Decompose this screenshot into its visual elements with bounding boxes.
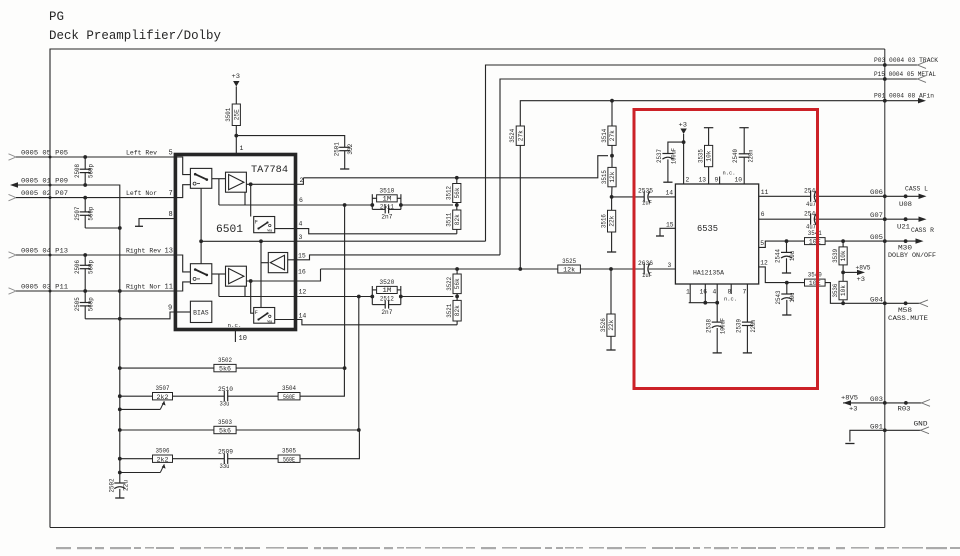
- wire pin7 stub: [746, 284, 748, 322]
- wire pins 1-16-4 common: [689, 302, 718, 304]
- svg-text:3521: 3521: [446, 304, 453, 318]
- svg-text:14: 14: [666, 190, 674, 197]
- svg-text:U21: U21: [897, 224, 910, 231]
- svg-text:12k: 12k: [609, 171, 616, 182]
- ground 2538: [713, 352, 722, 354]
- wire Right Rev: [16, 254, 175, 256]
- resistor 3521 82k: [456, 296, 458, 300]
- wire 3503 net: [120, 429, 214, 431]
- wire 2507 to bus: [85, 227, 120, 229]
- svg-text:4: 4: [713, 289, 717, 296]
- node pin12-R3522: [455, 295, 459, 299]
- svg-text:27k: 27k: [517, 130, 524, 141]
- svg-text:2n7: 2n7: [381, 214, 392, 221]
- node 2505-busP09: [118, 317, 122, 321]
- svg-text:2544: 2544: [775, 249, 782, 263]
- wire pin9 to bus: [120, 312, 176, 319]
- node G04-bus: [883, 301, 887, 305]
- svg-text:+3: +3: [857, 276, 866, 283]
- svg-text:BIAS: BIAS: [193, 310, 209, 317]
- svg-text:DOLBY ON/OFF: DOLBY ON/OFF: [888, 252, 936, 259]
- svg-text:2502: 2502: [108, 478, 115, 492]
- wire F-switch D to pin14: [275, 319, 296, 321]
- svg-text:n.c.: n.c.: [723, 170, 736, 177]
- node pin5-C2544: [785, 239, 789, 243]
- node G07-bus: [883, 217, 887, 221]
- svg-text:3535: 3535: [697, 149, 704, 163]
- svg-text:1M: 1M: [382, 195, 391, 202]
- capacitor 2508 560p: [84, 157, 86, 169]
- svg-text:3: 3: [668, 262, 672, 269]
- svg-text:3514: 3514: [601, 129, 608, 143]
- capacitor 2636 1uF: [643, 264, 645, 275]
- svg-text:12: 12: [299, 288, 307, 295]
- connector P15 0004 05 METAL: [918, 76, 927, 83]
- resistor 3515 12k: [611, 156, 613, 168]
- svg-text:56k: 56k: [454, 187, 461, 198]
- svg-text:332: 332: [347, 143, 354, 154]
- svg-text:2508: 2508: [74, 164, 81, 178]
- svg-text:7: 7: [743, 289, 747, 296]
- capacitor 2501 332: [339, 146, 350, 148]
- node pin6-R3512: [455, 203, 459, 207]
- svg-text:2538: 2538: [705, 319, 712, 333]
- node P07-C2507: [83, 196, 87, 200]
- capacitor 2507 560p: [84, 198, 86, 212]
- svg-text:10k: 10k: [840, 285, 847, 296]
- svg-text:2540: 2540: [732, 149, 739, 163]
- wire opamp B output to pin16: [246, 269, 320, 281]
- node 3501-out: [234, 134, 238, 138]
- svg-text:0005 05 P05: 0005 05 P05: [21, 149, 68, 156]
- node TRACK-bus: [883, 63, 887, 67]
- svg-text:3503: 3503: [218, 419, 232, 426]
- node 3525-3526: [609, 267, 613, 271]
- svg-text:0005 04 P13: 0005 04 P13: [21, 247, 68, 254]
- ground 2543: [782, 314, 791, 316]
- svg-text:Wa: Wa: [268, 320, 273, 324]
- svg-text:+8V5: +8V5: [841, 394, 858, 401]
- svg-text:3526: 3526: [600, 318, 607, 332]
- node bus-3506: [118, 457, 122, 461]
- ground pin15: [656, 235, 664, 237]
- svg-text:3506: 3506: [156, 448, 170, 455]
- node pin2-R3512: [455, 176, 459, 180]
- svg-text:13: 13: [699, 177, 707, 184]
- svg-text:82k: 82k: [454, 214, 461, 225]
- node R03: [904, 401, 908, 405]
- ground 2501: [340, 168, 349, 170]
- svg-text:2505: 2505: [74, 297, 81, 311]
- svg-text:3516: 3516: [600, 214, 607, 228]
- connector 0005 05 P05 Left Rev: [9, 154, 17, 160]
- connector P03 0004 03 TRACK: [918, 62, 927, 69]
- svg-text:27k: 27k: [609, 130, 616, 141]
- capacitor 2543 10u: [786, 283, 788, 294]
- wire +3 to pin2: [683, 142, 685, 184]
- svg-text:0005 01 P09: 0005 01 P09: [21, 177, 68, 184]
- svg-text:82k: 82k: [454, 305, 461, 316]
- svg-text:16: 16: [700, 289, 708, 296]
- capacitor 2541 4u7: [810, 214, 812, 225]
- svg-text:560p: 560p: [88, 206, 95, 220]
- resistor 3520 1M with capacitor 2512 2n7: [371, 286, 373, 305]
- node pin6-npR: [399, 203, 403, 207]
- svg-text:220n: 220n: [750, 319, 757, 332]
- node P11-border: [49, 290, 52, 293]
- wire pin9 internal: [175, 311, 190, 313]
- wire pin10 stub: [234, 330, 236, 343]
- wire G03 net: [843, 402, 922, 404]
- node bus-3507: [118, 394, 122, 398]
- svg-text:10: 10: [239, 335, 247, 343]
- node 3502-riser: [343, 366, 347, 370]
- node pin12-npR: [399, 295, 403, 299]
- svg-text:2535: 2535: [638, 188, 653, 195]
- node opA-Fbox: [249, 182, 253, 186]
- svg-text:1: 1: [240, 145, 244, 152]
- node P13-border: [49, 254, 52, 257]
- svg-text:2: 2: [686, 177, 690, 184]
- svg-text:220n: 220n: [747, 149, 754, 162]
- switch B FM/noise-red left: [254, 217, 275, 233]
- svg-text:Deck Preamplifier/Dolby: Deck Preamplifier/Dolby: [49, 29, 221, 43]
- capacitor 2537 100uF: [668, 142, 684, 153]
- wire pin3 internal: [201, 240, 295, 242]
- svg-text:3520: 3520: [379, 279, 394, 286]
- connector 0005 01 P09: [10, 182, 18, 187]
- node opB-Fbox: [249, 279, 253, 283]
- node pin3-opE: [259, 239, 263, 243]
- wire 3540 to G04: [825, 283, 885, 304]
- svg-text:5: 5: [169, 149, 173, 157]
- ground 3516: [607, 251, 616, 253]
- resistor 3514 27k: [611, 101, 613, 126]
- connector 0005 02 P07 Left Nor: [9, 194, 17, 200]
- node AFin-R3514: [610, 99, 614, 103]
- svg-text:33u: 33u: [220, 401, 230, 408]
- svg-text:2543: 2543: [775, 290, 782, 304]
- svg-text:3540: 3540: [808, 272, 822, 279]
- svg-text:1uF: 1uF: [642, 200, 652, 207]
- svg-text:HA12135A: HA12135A: [693, 270, 724, 277]
- ground 2539: [743, 352, 752, 354]
- node pin16-j: [703, 301, 707, 305]
- svg-text:Right Rev: Right Rev: [126, 247, 161, 254]
- wire 3507 wiper: [120, 408, 161, 410]
- power +8V5 arrow: [843, 271, 858, 273]
- svg-text:2509: 2509: [218, 449, 233, 456]
- svg-text:+3: +3: [232, 73, 241, 80]
- svg-text:3: 3: [299, 234, 303, 241]
- svg-text:10u: 10u: [789, 292, 796, 302]
- svg-text:56k: 56k: [454, 278, 461, 289]
- svg-text:560E: 560E: [283, 394, 295, 401]
- node P07-border: [49, 196, 52, 199]
- node pin12-C2543: [785, 281, 789, 285]
- right-edge bus wire: [884, 49, 886, 528]
- svg-text:1M: 1M: [382, 287, 391, 294]
- node P05-C2508: [83, 155, 87, 159]
- wire pin13 input bracket: [175, 255, 190, 272]
- svg-text:2636: 2636: [638, 260, 653, 267]
- svg-text:3536: 3536: [832, 283, 839, 297]
- ground 2502: [115, 497, 124, 499]
- node 3514-3515: [610, 154, 614, 158]
- svg-text:F: F: [255, 310, 258, 316]
- svg-text:7: 7: [169, 190, 173, 198]
- node pin16-R3522: [455, 267, 459, 271]
- svg-text:13: 13: [165, 247, 173, 255]
- svg-text:+3: +3: [679, 122, 688, 129]
- svg-text:6: 6: [299, 197, 303, 204]
- wire AFin net: [520, 101, 918, 269]
- node 3541-3539: [841, 239, 845, 243]
- svg-text:2n7: 2n7: [381, 309, 392, 316]
- svg-text:10k: 10k: [706, 150, 713, 161]
- svg-text:4u7: 4u7: [806, 201, 816, 208]
- resistor 3524 27k: [516, 126, 524, 145]
- switch D FM/noise-red right: [254, 308, 275, 324]
- svg-text:CASS R: CASS R: [911, 227, 934, 234]
- wire opB to F-switch D: [251, 281, 254, 313]
- wire pin1 stub: [689, 284, 691, 303]
- capacitor 2544 10u: [786, 241, 788, 252]
- svg-text:M58: M58: [898, 307, 912, 314]
- svg-text:11: 11: [761, 189, 769, 196]
- connector P01 0004 08 AFin: [918, 98, 926, 103]
- wire pin5 net: [759, 241, 805, 247]
- wire Left Nor: [16, 197, 175, 199]
- wire pin4 stub: [716, 284, 718, 303]
- op-amp A left record/play amp: [226, 172, 247, 192]
- node pin6-npL: [370, 203, 374, 207]
- svg-text:10E: 10E: [809, 280, 821, 287]
- resistor 3502 5k6: [214, 364, 236, 371]
- svg-text:100uF: 100uF: [670, 148, 677, 164]
- svg-text:5: 5: [760, 240, 764, 247]
- ground 2544: [782, 272, 791, 274]
- svg-text:3511: 3511: [446, 213, 453, 227]
- wire P09 net: [17, 185, 120, 483]
- capacitor 2540 220n: [739, 127, 748, 129]
- svg-text:2507: 2507: [74, 206, 81, 220]
- node bus-3506wiper: [118, 471, 122, 475]
- capacitor 2502 22u: [114, 482, 125, 484]
- svg-text:11: 11: [165, 283, 173, 291]
- svg-text:3524: 3524: [509, 129, 516, 143]
- svg-text:3501: 3501: [225, 108, 232, 122]
- wire opE output to pin15: [288, 259, 296, 261]
- wire pin8 stub nc: [730, 284, 732, 294]
- wire pin15 ground hook: [660, 228, 675, 236]
- svg-text:F: F: [255, 220, 258, 226]
- svg-text:2506: 2506: [74, 260, 81, 274]
- svg-text:10E: 10E: [809, 239, 821, 246]
- wire opA to F-switch B: [250, 184, 252, 216]
- svg-text:9: 9: [715, 177, 719, 184]
- wire pin6 internal: [219, 204, 296, 206]
- node P09-border: [49, 184, 52, 187]
- ground G01: [845, 443, 854, 445]
- capacitor 2509 33u: [223, 454, 225, 464]
- svg-text:2k2: 2k2: [157, 456, 169, 463]
- node pin12-npL: [370, 295, 374, 299]
- svg-text:M30: M30: [898, 244, 912, 251]
- svg-text:8: 8: [169, 211, 173, 219]
- switch S1 head amp left: [190, 168, 211, 188]
- switch S2 head amp right: [190, 264, 211, 284]
- wire pin11 input bracket: [175, 282, 190, 291]
- node P11-busP09: [118, 289, 122, 293]
- node P09-C2508: [83, 183, 87, 187]
- svg-text:Left Nor: Left Nor: [126, 190, 157, 197]
- wire pin7 input bracket: [175, 185, 190, 198]
- node METAL-bus: [883, 77, 887, 81]
- svg-text:R03: R03: [898, 406, 911, 413]
- svg-text:5k6: 5k6: [219, 428, 231, 435]
- wire pin12 internal: [219, 296, 296, 298]
- wire Left Rev: [16, 156, 175, 158]
- svg-text:9: 9: [168, 305, 172, 313]
- svg-text:CASS L: CASS L: [905, 185, 928, 192]
- svg-text:3541: 3541: [808, 230, 822, 237]
- svg-text:2512: 2512: [380, 296, 394, 303]
- wire 3506 wiper: [120, 472, 161, 474]
- wire opamp A feedback: [218, 179, 220, 205]
- node 3515-C2535: [610, 195, 614, 199]
- wire 3506 net: [120, 458, 153, 460]
- node bus-3503: [118, 428, 122, 432]
- resistor 3526 22k: [610, 269, 612, 314]
- resistor 3501 25E: [232, 104, 240, 126]
- resistor 3504 560E: [278, 393, 300, 400]
- wire S2 to opamp B: [212, 273, 226, 275]
- svg-text:100uF: 100uF: [720, 318, 727, 334]
- svg-text:3512: 3512: [446, 186, 453, 200]
- wire Right Nor: [16, 290, 175, 292]
- node P11-C2505: [83, 289, 87, 293]
- node 3539-3536: [841, 271, 845, 275]
- node +3-C2537: [682, 140, 686, 144]
- node G05-bus: [883, 239, 887, 243]
- svg-text:3525: 3525: [562, 258, 576, 265]
- wire S1 to opamp A: [212, 178, 226, 180]
- svg-text:560E: 560E: [283, 456, 295, 463]
- svg-text:0005 02 P07: 0005 02 P07: [21, 190, 68, 197]
- BIAS block: [190, 301, 211, 322]
- ground pin8: [135, 225, 143, 227]
- resistor 3540 10E: [805, 279, 826, 286]
- svg-text:TA7784: TA7784: [251, 165, 288, 176]
- resistor 3539 10k: [842, 241, 844, 247]
- svg-text:n.c.: n.c.: [228, 322, 242, 329]
- node AFin-bus: [883, 99, 887, 103]
- svg-text:U08: U08: [899, 201, 912, 208]
- wire pin5 input bracket: [175, 157, 190, 175]
- IC U6501 TA7784 outline: [175, 155, 295, 330]
- trimmer 3507 2k2: [153, 393, 173, 400]
- wire pin11 to C2542: [759, 195, 811, 197]
- capacitor 2542 4u7: [810, 191, 812, 202]
- svg-text:Right Nor: Right Nor: [126, 283, 161, 290]
- node pin12-riser: [357, 295, 361, 299]
- node G01-bus: [883, 428, 887, 432]
- svg-text:8: 8: [728, 289, 732, 296]
- capacitor 2510 33u: [223, 391, 225, 401]
- resistor 3505 560E: [278, 455, 300, 462]
- svg-text:0005 03 P11: 0005 03 P11: [21, 283, 68, 290]
- wire pin9 stub nc: [719, 177, 721, 185]
- resistor 3503 5k6: [214, 426, 236, 433]
- svg-text:Left Rev: Left Rev: [126, 149, 157, 156]
- svg-text:2: 2: [300, 177, 304, 184]
- resistor 3535 10k: [704, 127, 713, 129]
- wire opE input: [260, 241, 262, 307]
- wire riser pin6 to 3502: [344, 205, 346, 368]
- node 3536-G04: [841, 301, 845, 305]
- connector 0005 04 P13 Right Rev: [9, 252, 17, 258]
- svg-text:15: 15: [666, 221, 674, 228]
- svg-text:10u: 10u: [789, 251, 796, 261]
- svg-text:2539: 2539: [736, 319, 743, 333]
- wire 3501 to C2501: [236, 136, 344, 148]
- resistor 3525 12k: [558, 265, 581, 273]
- svg-text:3515: 3515: [601, 170, 608, 184]
- wire 3501 to pin1: [235, 136, 237, 155]
- wire riser pin12 to 3503: [358, 297, 360, 431]
- wire 3502 net: [120, 367, 214, 369]
- resistor 3516 22k: [611, 197, 613, 210]
- node bus-3507wiper: [118, 408, 122, 412]
- node 3503-riser: [357, 428, 361, 432]
- svg-text:2k2: 2k2: [157, 394, 169, 401]
- svg-text:Wa: Wa: [268, 230, 273, 234]
- svg-text:3522: 3522: [446, 277, 453, 291]
- svg-text:G07: G07: [870, 212, 883, 219]
- node pin4-j: [715, 301, 719, 305]
- node bus-3502: [118, 366, 122, 370]
- IC U6535 HA12135A outline: [675, 184, 758, 284]
- resistor 3522 56k: [456, 269, 458, 274]
- svg-text:3507: 3507: [156, 385, 170, 392]
- svg-text:1uF: 1uF: [642, 272, 652, 279]
- op-amp E reverse monitor: [268, 253, 287, 273]
- wire switch control vertical: [200, 188, 202, 263]
- svg-text:15: 15: [298, 252, 306, 259]
- svg-text:10: 10: [735, 177, 743, 184]
- svg-text:5k6: 5k6: [219, 366, 231, 373]
- trimmer 3506 2k2: [153, 455, 173, 462]
- node pin6-riser: [343, 203, 347, 207]
- resistor 3511 82k: [456, 205, 458, 210]
- svg-text:3502: 3502: [218, 357, 232, 364]
- svg-text:4: 4: [299, 221, 303, 228]
- svg-text:2510: 2510: [218, 386, 233, 393]
- wire METAL net: [500, 79, 918, 255]
- svg-text:G04: G04: [870, 296, 883, 303]
- connector 0005 03 P11 Right Nor: [9, 288, 17, 294]
- wire pin16 stub: [704, 284, 706, 303]
- wire opamp A output to pin2: [246, 178, 303, 185]
- resistor 3510 1M with capacitor 2511 2n7: [371, 194, 373, 209]
- node pin16-AFin: [518, 267, 522, 271]
- wire pin8 ground hook: [139, 219, 175, 227]
- capacitor 2539 220n: [742, 321, 753, 323]
- node P13-C2506: [83, 253, 87, 257]
- svg-text:14: 14: [299, 312, 307, 319]
- wire 2505 to bus: [85, 318, 120, 320]
